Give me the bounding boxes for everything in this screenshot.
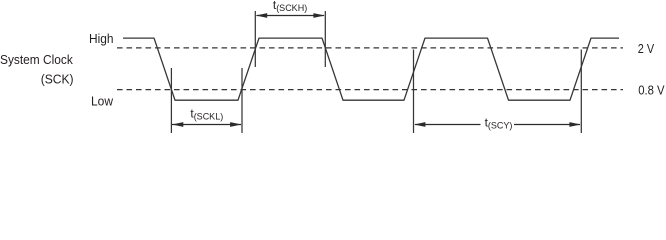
svg-text:High: High <box>89 32 114 46</box>
svg-text:Low: Low <box>91 95 114 109</box>
svg-text:(SCY): (SCY) <box>488 121 513 131</box>
svg-text:System Clock: System Clock <box>0 53 74 67</box>
svg-text:(SCKH): (SCKH) <box>276 3 307 13</box>
svg-text:2 V: 2 V <box>638 42 655 56</box>
svg-text:(SCKL): (SCKL) <box>194 112 224 122</box>
svg-text:(SCK): (SCK) <box>41 73 74 87</box>
svg-text:0.8 V: 0.8 V <box>638 84 665 98</box>
